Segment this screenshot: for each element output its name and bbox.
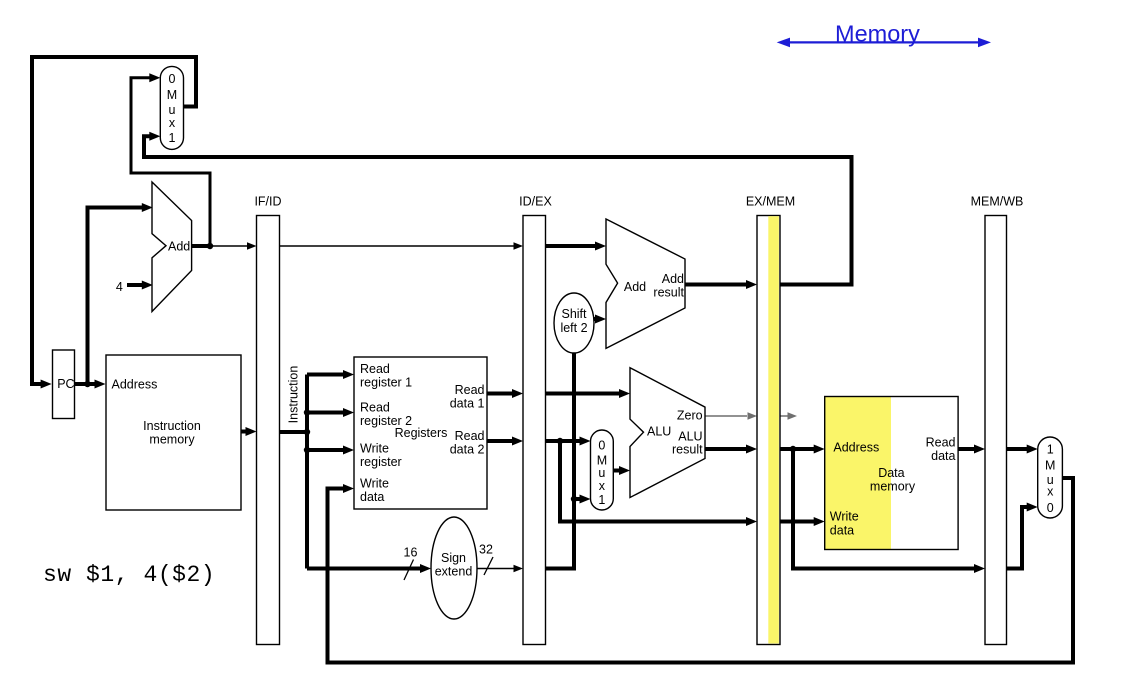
svg-text:Data: Data [878, 466, 904, 480]
svg-text:Write: Write [830, 510, 859, 524]
svg-text:x: x [599, 479, 606, 493]
svg-text:32: 32 [479, 543, 493, 557]
svg-text:M: M [167, 88, 177, 102]
svg-text:Read: Read [455, 429, 485, 443]
svg-text:Memory: Memory [835, 20, 920, 46]
svg-text:data: data [360, 490, 384, 504]
svg-text:data: data [931, 449, 955, 463]
svg-text:Add: Add [168, 240, 190, 254]
svg-text:data 1: data 1 [450, 397, 485, 411]
svg-text:4: 4 [116, 280, 123, 294]
svg-text:result: result [672, 443, 703, 457]
svg-text:Zero: Zero [677, 409, 703, 423]
svg-text:x: x [169, 116, 176, 130]
svg-text:Read: Read [926, 436, 956, 450]
svg-text:Add: Add [662, 272, 684, 286]
svg-text:Write: Write [360, 441, 389, 455]
svg-text:Write: Write [360, 477, 389, 491]
svg-text:0: 0 [598, 439, 605, 453]
svg-text:result: result [653, 286, 684, 300]
svg-text:extend: extend [435, 565, 473, 579]
svg-text:Read: Read [455, 383, 485, 397]
svg-text:M: M [1045, 459, 1055, 473]
svg-text:IF/ID: IF/ID [254, 194, 281, 208]
svg-text:1: 1 [1047, 443, 1054, 457]
svg-text:1: 1 [598, 493, 605, 507]
svg-text:PC: PC [57, 377, 74, 391]
svg-text:x: x [1047, 485, 1054, 499]
svg-text:u: u [169, 103, 176, 117]
svg-text:ALU: ALU [678, 430, 702, 444]
svg-text:MEM/WB: MEM/WB [971, 194, 1024, 208]
svg-text:Sign: Sign [441, 551, 466, 565]
svg-text:u: u [598, 466, 605, 480]
svg-text:left 2: left 2 [560, 321, 587, 335]
svg-text:0: 0 [169, 72, 176, 86]
svg-text:data 2: data 2 [450, 443, 485, 457]
svg-text:memory: memory [149, 433, 195, 447]
svg-text:Instruction: Instruction [287, 366, 301, 424]
svg-text:Address: Address [833, 441, 879, 455]
svg-text:data: data [830, 523, 854, 537]
svg-text:16: 16 [404, 546, 418, 560]
svg-text:Registers: Registers [395, 426, 448, 440]
svg-text:EX/MEM: EX/MEM [746, 194, 795, 208]
svg-text:Shift: Shift [561, 307, 587, 321]
svg-text:Address: Address [112, 378, 158, 392]
svg-text:Read: Read [360, 400, 390, 414]
svg-text:Read: Read [360, 362, 390, 376]
svg-text:register 1: register 1 [360, 376, 412, 390]
svg-text:memory: memory [870, 480, 916, 494]
svg-text:0: 0 [1047, 501, 1054, 515]
svg-text:Instruction: Instruction [143, 419, 201, 433]
svg-text:register: register [360, 455, 402, 469]
svg-text:1: 1 [169, 131, 176, 145]
svg-text:sw $1, 4($2): sw $1, 4($2) [43, 562, 215, 588]
svg-text:ID/EX: ID/EX [519, 194, 552, 208]
svg-text:Add: Add [624, 280, 646, 294]
svg-text:ALU: ALU [647, 425, 671, 439]
